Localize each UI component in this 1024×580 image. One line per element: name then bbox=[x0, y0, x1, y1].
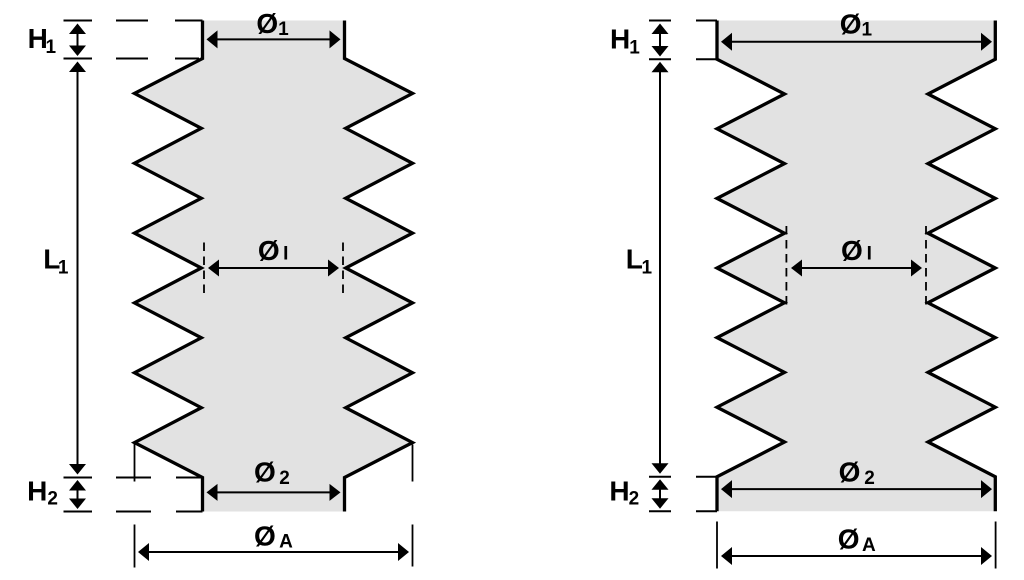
left diaI dashed lines bbox=[204, 243, 343, 294]
left dia2 arrow bbox=[207, 484, 341, 501]
left bellows right outline bbox=[345, 21, 413, 512]
left dia1 arrow bbox=[207, 30, 341, 48]
right L1 dimension line bbox=[652, 62, 669, 474]
right bellows body fill bbox=[717, 21, 995, 512]
left H1 ticks bbox=[64, 21, 93, 59]
svg-text:H2: H2 bbox=[609, 476, 639, 510]
left H2 double arrow bbox=[69, 480, 86, 509]
left L1 dimension line bbox=[69, 62, 86, 475]
svg-text:ØA: ØA bbox=[254, 521, 293, 553]
svg-text:L1: L1 bbox=[43, 244, 69, 279]
left H2 ticks bbox=[64, 478, 93, 512]
left H1 dashed extension bottom bbox=[116, 58, 199, 60]
left bellows body fill bbox=[135, 21, 413, 512]
right H2 ticks bbox=[649, 477, 671, 512]
right diaA extension lines bbox=[717, 522, 996, 569]
right bellows right outline bbox=[928, 21, 995, 512]
svg-text:H1: H1 bbox=[610, 23, 640, 58]
right diaI arrow bbox=[791, 260, 922, 277]
left diaA extension lines bbox=[135, 444, 413, 568]
right H2 double arrow bbox=[652, 479, 669, 509]
left diaA arrow bbox=[138, 543, 409, 561]
right H1 extension stubs bbox=[696, 21, 717, 60]
right bellows left outline bbox=[717, 21, 785, 512]
right diaI dashed lines bbox=[786, 226, 926, 310]
right H2 extension stubs bbox=[696, 477, 717, 512]
svg-text:ØA: ØA bbox=[838, 524, 876, 556]
right H1 double arrow bbox=[652, 24, 669, 57]
left H1 double arrow bbox=[69, 24, 86, 57]
left H2 dashed extension bottom bbox=[116, 511, 203, 513]
right dia2 arrow bbox=[721, 480, 992, 498]
left H2 dashed extension top bbox=[116, 477, 203, 479]
svg-text:H2: H2 bbox=[27, 475, 58, 509]
svg-text:Ø1: Ø1 bbox=[840, 9, 873, 41]
right diaA arrow bbox=[721, 547, 992, 565]
svg-text:L1: L1 bbox=[626, 244, 653, 279]
svg-text:H1: H1 bbox=[28, 23, 57, 58]
right H1 ticks bbox=[649, 21, 671, 60]
svg-text:Ø1: Ø1 bbox=[256, 8, 289, 40]
right dia1 arrow bbox=[721, 33, 992, 51]
left H1 dashed extension top bbox=[116, 20, 203, 22]
left bellows left outline bbox=[135, 21, 203, 512]
left diaI arrow bbox=[208, 260, 339, 277]
